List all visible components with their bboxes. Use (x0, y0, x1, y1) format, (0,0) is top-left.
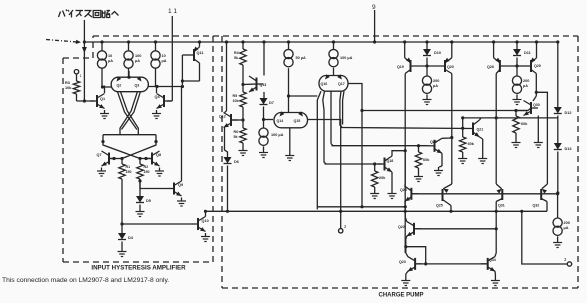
wire Q16Q17 base to Q26 base (332, 144, 428, 147)
label Q3 (135, 84, 140, 88)
svg-text:Q9: Q9 (178, 183, 183, 187)
svg-text:Q20: Q20 (447, 65, 454, 69)
label Q32 (533, 204, 540, 208)
pin 9 label (372, 4, 376, 11)
transistor Q20 (427, 42, 452, 72)
wire Q11 base-collector tie (181, 60, 200, 87)
transistor Q12 (224, 113, 239, 128)
svg-text:R3: R3 (65, 81, 70, 85)
transistor Q23 (408, 256, 423, 271)
label R1 150 (126, 165, 132, 174)
node A current source I1 to Q2 base (101, 85, 112, 88)
wire Q4 node to Q9/Q11 vertical (157, 86, 182, 88)
ground Q30 emitter (534, 139, 543, 148)
svg-text:1 1: 1 1 (168, 8, 177, 15)
wire Q23 emitter to ground (406, 271, 408, 277)
label I6 100uA (340, 56, 353, 60)
svg-text:Q30: Q30 (533, 103, 540, 107)
wire Q1 collector to node A (103, 86, 105, 94)
wire Q12 collector (225, 111, 227, 113)
wire Q34 emitter to ground (494, 271, 496, 277)
diode D5 (136, 181, 144, 208)
svg-text:µA: µA (433, 84, 438, 88)
wire Q16Q17 base middle stem (331, 92, 333, 146)
node Q19 emitter rail (403, 40, 406, 43)
svg-text:Q1: Q1 (100, 97, 105, 101)
wire rail to Q12 collector (225, 40, 228, 111)
current source I3 10uA (151, 40, 160, 86)
label Q23 (399, 260, 406, 264)
wire Q22 emitter node (404, 236, 407, 248)
ground Q18 (388, 190, 397, 199)
svg-text:Q26: Q26 (430, 140, 437, 144)
ground Q21 emitter (478, 155, 487, 164)
transistor Q9 (167, 181, 182, 196)
svg-text:50 µA: 50 µA (296, 56, 306, 60)
wire Q22 base line (414, 228, 496, 230)
node Q11 emitter rail (198, 40, 201, 43)
svg-text:Q19: Q19 (397, 65, 404, 69)
label I9 200uA (564, 221, 570, 230)
pin 11 lead (167, 16, 172, 101)
svg-text:R5: R5 (233, 94, 238, 98)
wire Q16 collector leg (317, 91, 326, 209)
svg-text:Q17: Q17 (338, 82, 345, 86)
node Q29 emitter rail (535, 40, 538, 43)
wire Q34 collector (495, 253, 496, 256)
wire Q23 collector (406, 247, 408, 257)
wire charge pump output line (206, 210, 548, 213)
wire R3 to Q1 base (77, 99, 95, 102)
label Q9 (178, 183, 183, 187)
diode D13 (554, 143, 562, 193)
current source I2 100uA (124, 40, 133, 77)
label Q17 (338, 82, 345, 86)
ground I8 (513, 96, 522, 105)
svg-text:200: 200 (564, 221, 570, 225)
wire Q12 base to R5R6 node (231, 119, 243, 121)
wire Q22 collector link (317, 205, 407, 208)
label CHARGE PUMP (378, 293, 423, 299)
wire Q30 collector (533, 92, 536, 101)
resistor R7 20k (372, 164, 378, 190)
resistor R3 10k (73, 74, 79, 101)
wire Q30 emitter to ground (537, 116, 539, 140)
label Q28 (487, 65, 494, 69)
dashed top boundary line of charge pump box (93, 35, 578, 37)
ground Q1 emitter (100, 110, 109, 119)
svg-text:D10: D10 (434, 51, 441, 55)
label Q14 (277, 119, 284, 123)
wire Q26 emitter to ground (439, 153, 442, 167)
resistor R10 60k (513, 111, 519, 140)
svg-text:Q29: Q29 (534, 64, 541, 68)
resistor R8 60k (415, 146, 421, 173)
svg-text:D13: D13 (565, 147, 572, 151)
label I3 10uA (162, 54, 167, 63)
diode D4 (118, 224, 126, 248)
dual transistor Q2 Q3 body (111, 71, 148, 92)
dashed boundary of input hysteresis amplifier box (63, 36, 213, 262)
ground I7 (423, 96, 432, 105)
svg-text:D6: D6 (234, 160, 239, 164)
wire Q16 collector to Q18 base (325, 162, 382, 165)
wire Q18 emitter to ground (391, 172, 393, 190)
ground Q34 (491, 277, 500, 286)
label Q15 (294, 119, 301, 123)
transistor Q29 (517, 42, 537, 72)
svg-text:Q34: Q34 (489, 258, 496, 262)
node Q31 collector to Q22 base (495, 227, 498, 230)
current source I5 50uA (284, 40, 293, 66)
resistor R9 30k (460, 118, 466, 155)
node R2 bottom (138, 179, 141, 182)
label INPUT HYSTERESIS AMPLIFIER (91, 265, 186, 272)
svg-text:µA: µA (523, 84, 528, 88)
current source I9 200uA (553, 218, 562, 239)
ground Q4 emitter (152, 110, 161, 119)
transistor Q24 (405, 186, 419, 201)
label R10 60k (521, 122, 528, 126)
wire Q29 collector to cascode (536, 92, 547, 193)
svg-text:CHARGE PUMP: CHARGE PUMP (378, 293, 423, 299)
svg-text:Q15: Q15 (294, 119, 301, 123)
svg-text:Q18: Q18 (387, 159, 394, 163)
label Q20 (447, 65, 454, 69)
svg-text:Q13: Q13 (260, 83, 267, 87)
wire Q14Q15 stem to ground (289, 128, 291, 152)
svg-text:Q32: Q32 (533, 204, 540, 208)
transistor Q7 (102, 151, 117, 166)
svg-text:10: 10 (162, 54, 166, 58)
transistor Q1 (90, 94, 105, 109)
label Q19 (397, 65, 404, 69)
label Q1 (100, 97, 105, 101)
wire Q11 collector down (194, 59, 200, 81)
transistor Q26 (428, 138, 443, 153)
label D5 (146, 199, 151, 203)
label D7 (269, 101, 274, 105)
label Q34 (489, 258, 496, 262)
label R8 60k (423, 158, 430, 162)
transistor Q21 (473, 118, 483, 155)
label Q10 (202, 219, 209, 223)
wire Q19 collector down (405, 70, 410, 254)
transistor Q28 (494, 42, 517, 72)
label D6 (234, 160, 239, 164)
transistor Q32 cascode (541, 189, 547, 211)
svg-text:Q24: Q24 (400, 188, 407, 192)
ground D5 (136, 208, 145, 217)
label D10 (434, 51, 441, 55)
wire Q9 collector up to Q11 node (181, 85, 184, 181)
svg-text:Q10: Q10 (202, 219, 209, 223)
wire Q26 base (0, 0, 1, 1)
dual transistor Q14 Q15 body (274, 111, 308, 128)
svg-text:150: 150 (144, 170, 150, 174)
label Q22 (398, 225, 405, 229)
transistor Q30 (524, 101, 539, 116)
label I5 50uA (296, 56, 306, 60)
diode D12 (554, 107, 562, 143)
wire Q13 base (243, 83, 257, 86)
diode D11 (513, 40, 521, 66)
label Q24 (400, 188, 407, 192)
ground R8 (414, 173, 423, 182)
svg-text:Q3: Q3 (135, 84, 140, 88)
transistor Q11 (193, 42, 199, 61)
wire cross-couple right to Q7 base (122, 142, 156, 159)
current source I7 200uA (422, 66, 431, 96)
wire Q22 emitter L-link (406, 247, 428, 266)
transistor Q31 cascode (496, 189, 502, 253)
resistor R5 10k (240, 85, 246, 120)
label Q12 (219, 115, 226, 119)
label Q31 (498, 204, 505, 208)
wire Q23 base line (415, 263, 488, 265)
ground R9 (458, 155, 467, 164)
label Q25 (436, 204, 443, 208)
ground Q9 emitter (177, 198, 186, 207)
wire Q24 leads (404, 151, 406, 207)
svg-text:Q14: Q14 (277, 119, 284, 123)
ground Q7 emitter (97, 168, 106, 177)
node Q30 collector junction (535, 91, 538, 94)
transistor Q19 (405, 42, 427, 72)
pin 1 input terminal (74, 70, 81, 79)
wire Q4 collector to I3 (156, 86, 157, 94)
transistor Q8 (145, 151, 160, 166)
svg-text:D12: D12 (565, 111, 572, 115)
svg-text:100 µA: 100 µA (271, 133, 284, 137)
node Q20 emitter rail (450, 40, 453, 43)
svg-text:µA: µA (564, 226, 569, 230)
resistor R4 5k (240, 40, 246, 85)
svg-text:µA: µA (162, 59, 167, 63)
node R4 R5 junction (241, 83, 244, 86)
wire cross-couple left to Q8 base (103, 142, 140, 159)
wire Q7 base line (109, 157, 124, 160)
wire Q22 collector (405, 207, 407, 222)
wire rail to D12 (556, 40, 559, 107)
label Q21 (477, 128, 484, 132)
label R7 20k (379, 176, 386, 180)
svg-text:200: 200 (433, 79, 439, 83)
svg-text:Q8: Q8 (156, 153, 161, 157)
note text LM2907-8 (2, 277, 169, 284)
svg-text:200: 200 (523, 79, 529, 83)
label R5 10k (233, 94, 239, 103)
label I2 100uA (135, 54, 141, 63)
label I4 100uA (271, 133, 284, 137)
wire latch top bar (103, 135, 156, 142)
wire V+ supply rail (84, 41, 557, 43)
svg-text:5k: 5k (234, 56, 238, 60)
wire Q20 collector down (445, 70, 452, 139)
resistor R2 150 (137, 159, 143, 182)
node base line junction (360, 109, 363, 112)
ground Q23 (401, 277, 410, 286)
svg-text:100: 100 (135, 54, 141, 58)
wire base line to Q30 (362, 109, 528, 112)
wire Q24 base line (411, 192, 559, 195)
svg-text:R4: R4 (234, 51, 239, 55)
wire Q8 base line (138, 157, 152, 160)
node R5 R6 junction (241, 118, 244, 121)
node Q16 base branch (287, 94, 290, 97)
svg-text:Q22: Q22 (398, 225, 405, 229)
node bias line junction (83, 40, 86, 43)
resistor R6 5k (240, 120, 246, 147)
label Q18 (387, 159, 394, 163)
label Q11 (197, 51, 204, 55)
label Q30 (533, 103, 540, 107)
svg-text:This connection made on LM2907: This connection made on LM2907-8 and LM2… (2, 277, 169, 284)
svg-text:10k: 10k (65, 86, 72, 90)
current source I8 200uA (512, 66, 521, 96)
node D13 to mirror (556, 191, 559, 194)
label Q13 (260, 83, 267, 87)
svg-text:Q28: Q28 (487, 65, 494, 69)
wire Q2Q3 collector funnel with crossover (118, 92, 141, 135)
label R6 5k (234, 130, 239, 139)
svg-text:30k: 30k (468, 142, 475, 146)
node Q28 Q29 base junction (515, 64, 518, 67)
svg-text:Q2: Q2 (117, 84, 122, 88)
ground I9 (553, 239, 562, 248)
label R3 10k (65, 81, 72, 90)
ground R10 (512, 139, 521, 148)
wire Q26 collector (442, 137, 452, 139)
pin 3 terminal (522, 211, 572, 266)
diode D6 (224, 157, 232, 211)
wire Q30 base (516, 108, 531, 111)
wire Q20 collector to Q25 emitter (443, 138, 452, 193)
ground Q14Q15 (285, 152, 294, 161)
label D4 (128, 236, 134, 240)
wire 50uA to Q14Q15 top (288, 68, 290, 112)
svg-text:10: 10 (108, 54, 112, 58)
label Q26 (430, 140, 437, 144)
transistor Q13 (249, 76, 264, 92)
node latch right (154, 140, 157, 143)
label R2 150 (144, 165, 150, 174)
resistor R1 150 (119, 159, 125, 225)
svg-text:Q7: Q7 (97, 153, 102, 157)
transistor Q25 cascode (443, 189, 452, 211)
svg-text:100 µA: 100 µA (340, 56, 353, 60)
svg-text:Q4: Q4 (155, 95, 161, 99)
wire Q16 base tie (289, 95, 318, 97)
svg-text:Q31: Q31 (498, 204, 505, 208)
label Q16 (321, 82, 328, 86)
svg-text:5k: 5k (234, 135, 238, 139)
wire Q28 collector to Q31 emitter (496, 70, 502, 194)
wire Q18 collector to Q19 line (392, 149, 407, 156)
pin 2 terminal (339, 211, 348, 233)
wire mirror bias down (557, 194, 559, 218)
wire R2 node to Q9 base (140, 181, 167, 189)
diode D10 (423, 40, 431, 66)
current source I1 10uA (97, 40, 106, 87)
node D4 junction (120, 222, 123, 225)
svg-text:1: 1 (80, 74, 82, 78)
svg-text:Q16: Q16 (321, 82, 328, 86)
svg-text:Q23: Q23 (399, 260, 406, 264)
wire Q11 base lead (182, 55, 194, 60)
transistor Q10 (191, 217, 206, 232)
svg-text:D11: D11 (524, 51, 531, 55)
label Q29 (534, 64, 541, 68)
svg-text:Q12: Q12 (219, 115, 226, 119)
transistor Q18 (378, 156, 393, 172)
svg-text:R2: R2 (144, 165, 149, 169)
wire to bias circuitry with arrow (82, 20, 87, 101)
transistor Q4 (157, 94, 172, 109)
label I7 200uA (433, 79, 439, 88)
wire cascode bias line (461, 116, 558, 119)
wire Q13 emitter to D7 (263, 92, 265, 98)
label I8 200uA (523, 79, 529, 88)
ground Q10 emitter (201, 233, 210, 242)
ground I4 (259, 149, 268, 158)
svg-text:µA: µA (135, 59, 140, 63)
label D11 (524, 51, 531, 55)
svg-text:Q25: Q25 (436, 204, 443, 208)
current source I4 100uA (259, 128, 268, 149)
dashed left/bottom/right boundary of charge pump box (222, 36, 578, 288)
transistor Q34 (481, 256, 496, 271)
label R4 5k (234, 51, 239, 60)
label Q8 (156, 153, 161, 157)
wire Q13 collector to rail (262, 40, 265, 75)
transistor Q22 (407, 221, 422, 236)
svg-text:µA: µA (108, 59, 113, 63)
label D12 (565, 111, 572, 115)
pin 9 lead (373, 10, 376, 44)
ground R6 (239, 147, 248, 156)
node Q28 emitter rail (492, 40, 495, 43)
dash-dot arrow into bias line (46, 40, 81, 45)
svg-text:R6: R6 (234, 130, 239, 134)
wire Q17 collector line to Q21 base (341, 127, 474, 130)
label Q7 (97, 153, 102, 157)
diode D7 (260, 98, 268, 128)
ground R7 (370, 190, 379, 199)
ground Q8 emitter (155, 168, 164, 177)
current source I6 100uA (329, 40, 338, 75)
node Q20 collector to Q26 (450, 136, 453, 139)
svg-text:150: 150 (126, 170, 132, 174)
svg-text:Q11: Q11 (197, 51, 204, 55)
svg-text:INPUT HYSTERESIS AMPLIFIER: INPUT HYSTERESIS AMPLIFIER (91, 265, 186, 272)
wire Q15 lead to loop (308, 120, 341, 212)
node I3 to Q3 base (148, 85, 159, 88)
svg-text:60k: 60k (521, 122, 528, 126)
svg-text:R1: R1 (126, 165, 131, 169)
label to bias circuitry (Japanese) (59, 10, 119, 18)
ground Q26 emitter (434, 167, 443, 176)
label Q4 (155, 95, 161, 99)
wire latch output to Q10 base (122, 223, 191, 225)
node D6 to output line (226, 210, 229, 213)
wire Q29 collector down (531, 70, 536, 93)
ground D4 (118, 248, 127, 257)
svg-text:10k: 10k (233, 99, 239, 103)
node Q19 Q20 base junction (425, 64, 428, 67)
svg-text:20k: 20k (379, 176, 386, 180)
pin 11 label (168, 8, 177, 15)
